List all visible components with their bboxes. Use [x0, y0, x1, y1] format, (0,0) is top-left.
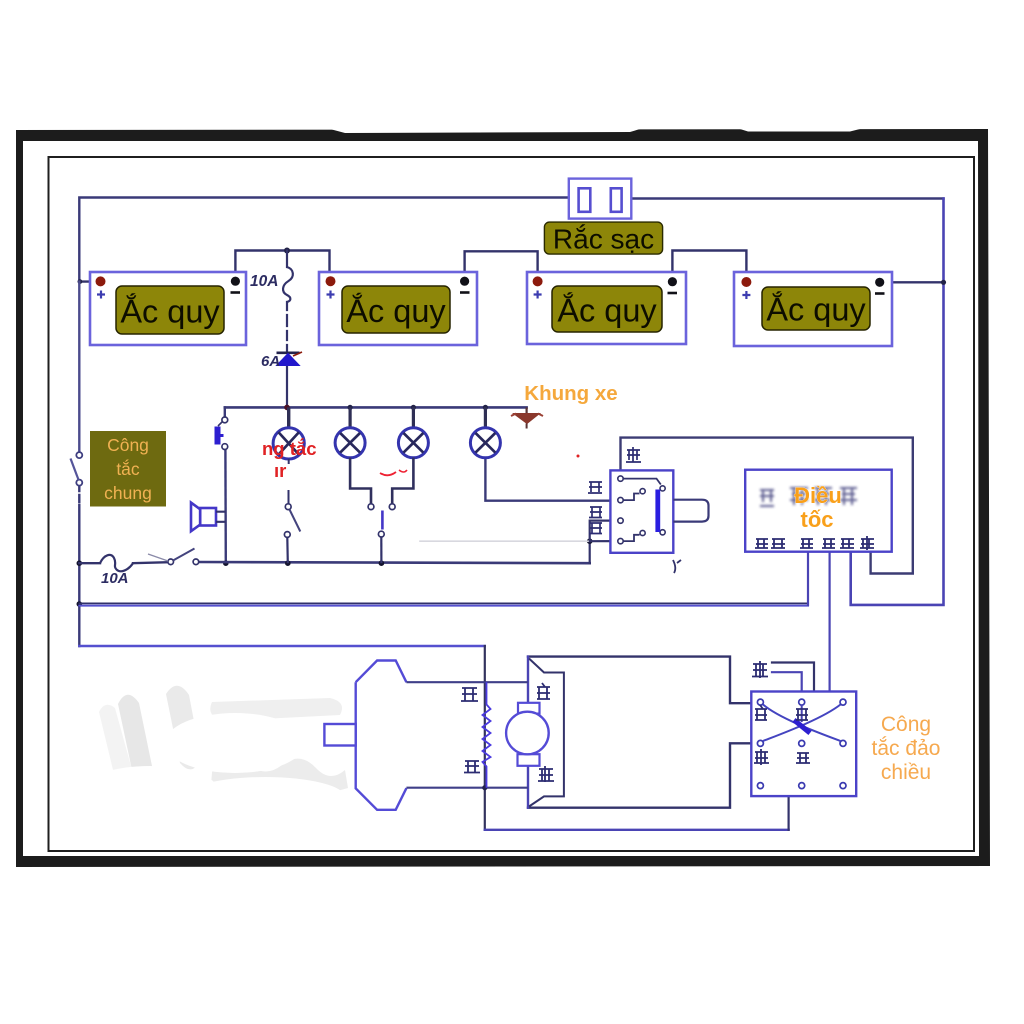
reversing switch box	[751, 692, 856, 797]
wire bottom rail between fuse F2 and switch S3	[133, 562, 168, 563]
battery B2	[319, 272, 477, 345]
wire motor terminal box left edge	[527, 657, 529, 808]
whiteout watermark bottom left	[82, 686, 348, 817]
small leftover mark below handlebar	[673, 560, 681, 573]
charger jack J1	[569, 179, 632, 219]
svg-text:Rắc sạc: Rắc sạc	[553, 224, 654, 255]
svg-text:ng tắc: ng tắc	[262, 438, 316, 459]
wire junction to handlebar pin4	[590, 540, 618, 542]
wire battery B3 minus to B4 plus	[672, 251, 746, 282]
glyph lv green overlapped	[796, 709, 808, 720]
glyph hong pin3	[589, 507, 602, 518]
lamp L2	[335, 407, 365, 457]
wire motor terminal box yellow wire to reversing switch pin	[528, 743, 758, 807]
push button S2 horn switch	[217, 417, 227, 450]
glyph cheng orange pin	[588, 482, 602, 493]
battery B2 terminals	[326, 276, 470, 298]
fuse F1 10A vertical squiggle	[283, 267, 293, 302]
node junction left rail / B1	[78, 279, 83, 284]
node junction left rail / controller red wire	[77, 601, 83, 607]
chinese glyphs motor labels	[461, 683, 554, 782]
glyph lv green	[822, 539, 835, 548]
glyph huang yellow	[860, 536, 874, 550]
wire battery B4 minus to right rail	[880, 281, 944, 283]
svg-text:6A: 6A	[261, 353, 280, 370]
wire fuse F1 / diode branch down to lamp rail	[286, 251, 288, 268]
switch S5 lamps B/C selector	[350, 458, 413, 564]
svg-text:Ắc quy: Ắc quy	[766, 291, 866, 328]
horn H1 speaker	[191, 503, 226, 532]
wire battery B1 minus to B2 plus	[235, 251, 329, 282]
motor M1 body	[324, 661, 528, 810]
wire frame-bottom loop: left rail to motor loop	[79, 645, 485, 647]
WHITEOUT-GROUP	[82, 430, 879, 817]
glyph bai white	[755, 705, 767, 720]
wire controller red pin long wire y=604	[79, 602, 808, 604]
svg-text:Ắc quy: Ắc quy	[557, 292, 657, 329]
glyph hei black	[840, 539, 854, 548]
COMPONENTS-GROUP	[71, 179, 893, 810]
svg-text:Điều: Điều	[794, 483, 842, 508]
glyph hong pin4	[589, 523, 602, 534]
glyph dao reverse	[752, 661, 768, 678]
wire bottom rail segment left (to fuse F2)	[79, 562, 100, 564]
label Ac quy B4	[762, 287, 870, 330]
glyph zhuan-ba	[755, 539, 785, 548]
glyph lan blue	[796, 753, 810, 763]
glyph huang yellow (motor box)	[538, 766, 554, 782]
label Ac quy B2	[342, 286, 450, 333]
glyph hong red	[800, 539, 813, 548]
node junction left rail / bottom rail	[77, 560, 83, 566]
wire battery B2 minus to B3 plus	[465, 251, 538, 281]
whiteout blob below fuse F2	[126, 573, 239, 599]
wire push-button branch from lamp rail corner down	[224, 407, 226, 417]
motor terminal trapezoid	[529, 659, 564, 807]
chinese glyphs handlebar	[588, 447, 641, 534]
TEXT-GROUP	[90, 222, 940, 784]
lamp L1	[273, 407, 304, 459]
diode D1 6A	[277, 352, 303, 366]
svg-text:tắc: tắc	[116, 458, 140, 479]
wire bottom rail from switch S3 rightward	[199, 562, 590, 563]
wire bottom rail right end up to handlebar red pins	[589, 541, 591, 563]
wire left rail lower to frame-bottom loop	[78, 563, 80, 646]
wire top rail right of charger jack to right rail	[632, 197, 944, 199]
controller box dieu toc	[745, 470, 892, 552]
wire left rail upper	[78, 282, 80, 453]
battery B1 terminals	[96, 276, 241, 298]
wire reverse plug hook dark	[772, 663, 814, 692]
svg-text:Ắc quy: Ắc quy	[120, 293, 220, 330]
svg-text:10A: 10A	[250, 273, 278, 290]
handlebar switch block	[610, 470, 708, 552]
svg-text:Khung xe: Khung xe	[524, 382, 617, 405]
svg-text:Ắc quy: Ắc quy	[346, 292, 446, 329]
battery B4	[734, 272, 892, 346]
lamp L3	[398, 407, 428, 457]
wire lamp D to handlebar pin2 (orange)	[485, 458, 618, 501]
wire faint erased stub left of junction	[420, 540, 588, 542]
node junction handlebar red pins	[587, 538, 593, 544]
label Cong tac dao chieu	[872, 713, 941, 784]
fuse F2 10A in bottom rail	[100, 555, 133, 571]
wire battery B1 plus to left rail	[79, 280, 100, 282]
glyph lan blue (motor)	[464, 761, 480, 773]
glyph huang above handlebar	[626, 447, 641, 462]
node junction lamp B	[348, 405, 353, 410]
label Cong tac chung	[90, 431, 166, 507]
wire junction to handlebar pin3	[590, 521, 618, 542]
glyph huang yellow	[754, 749, 769, 765]
node junction right rail / B4	[941, 280, 946, 285]
whiteout blob near green wire	[837, 643, 879, 685]
node junction lamp D	[483, 405, 488, 410]
wire reverse plug hook bright	[772, 672, 802, 699]
motor winding zigzag	[482, 785, 487, 790]
whiteout blob below khung xe	[502, 430, 602, 466]
wire lamp rail	[225, 406, 527, 409]
FRAME-GROUP	[16, 124, 990, 867]
label Rac sac	[544, 222, 662, 254]
node junction lamp C	[411, 405, 416, 410]
svg-text:tốc: tốc	[801, 507, 834, 532]
svg-text:Công: Công	[881, 713, 931, 736]
battery B3 terminals	[533, 276, 677, 298]
label red ng tac	[262, 438, 580, 481]
wire right rail down to controller black pin row	[851, 199, 944, 605]
node junction lamps BC switch / bottom rail	[379, 560, 385, 566]
node junction lamp A branch / bottom rail	[285, 560, 291, 566]
glyph bai white (motor box)	[537, 683, 550, 699]
label Ac quy B1	[116, 286, 224, 334]
svg-text:chung: chung	[104, 483, 152, 503]
battery B3	[527, 272, 686, 344]
svg-text:chiều: chiều	[881, 761, 931, 784]
WIRES-GROUP	[77, 198, 947, 830]
battery B4 terminals	[741, 277, 884, 299]
node junction fuse tap	[284, 248, 290, 254]
battery B1	[90, 272, 246, 345]
motor commutator brushes	[506, 703, 549, 766]
wire controller green pin down to reversing switch	[805, 553, 830, 703]
chinese glyphs reversing switch	[752, 661, 810, 765]
label Ac quy B3	[552, 286, 662, 332]
wire handlebar yellow loop to controller yellow pin	[621, 438, 913, 574]
node junction diode / lamp rail	[284, 405, 290, 411]
wire left rail below main switch	[78, 486, 80, 564]
chinese glyphs controller bottom row	[755, 536, 874, 550]
wire push-button to horn and bottom rail	[224, 450, 227, 564]
switch S4 lamp A branch	[284, 459, 300, 563]
glyph fen pink	[461, 688, 478, 701]
whiteout blob below handlebar switch	[608, 554, 678, 580]
main switch S1 (cong tac chung)	[71, 452, 83, 486]
wire blue motor lead up to reversing switch (lan)	[789, 743, 802, 829]
svg-text:ır: ır	[274, 460, 286, 481]
label Dieu toc with ghost chinese	[760, 483, 857, 532]
switch S3 in bottom rail	[148, 549, 199, 565]
node junction horn branch / bottom rail	[223, 560, 229, 566]
ground symbol khung xe	[511, 407, 543, 428]
svg-text:tắc đảo: tắc đảo	[872, 737, 941, 760]
wire motor terminal box white wire to reversing switch pin	[528, 657, 758, 704]
lamp L4	[470, 407, 500, 457]
wire top rail left of charger jack	[79, 198, 569, 283]
svg-text:Công: Công	[107, 435, 149, 455]
whiteout blob over lamp A area	[296, 458, 472, 503]
svg-text:10A: 10A	[101, 570, 129, 587]
